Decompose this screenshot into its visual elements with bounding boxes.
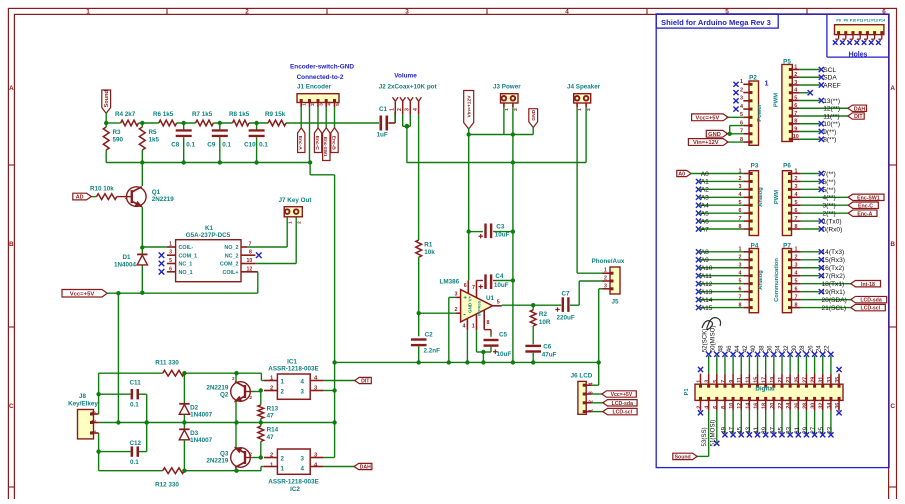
svg-text:Vcc=+5V: Vcc=+5V xyxy=(611,392,633,398)
svg-text:1N4007: 1N4007 xyxy=(190,412,213,419)
svg-text:Phone/Aux: Phone/Aux xyxy=(592,258,625,265)
svg-text:C1: C1 xyxy=(379,106,388,113)
svg-text:1: 1 xyxy=(740,79,743,85)
svg-text:10uF: 10uF xyxy=(495,232,510,239)
svg-text:2N2219: 2N2219 xyxy=(206,384,229,391)
svg-text:5: 5 xyxy=(795,278,798,284)
svg-text:1: 1 xyxy=(281,379,285,386)
svg-text:U1: U1 xyxy=(486,295,495,302)
svg-text:P2: P2 xyxy=(749,74,757,81)
svg-text:15(Rx3): 15(Rx3) xyxy=(822,257,845,264)
svg-text:32: 32 xyxy=(783,345,790,352)
svg-text:10: 10 xyxy=(247,258,253,264)
svg-text:D1: D1 xyxy=(122,254,131,261)
svg-text:3: 3 xyxy=(794,80,797,86)
svg-text:R2: R2 xyxy=(539,311,548,318)
svg-text:Connected-to-2: Connected-to-2 xyxy=(297,74,344,81)
svg-text:3: 3 xyxy=(301,389,305,396)
svg-text:1: 1 xyxy=(795,168,798,174)
svg-text:A5: A5 xyxy=(701,210,709,217)
svg-text:C10: C10 xyxy=(244,142,256,149)
svg-text:2: 2 xyxy=(795,176,798,182)
svg-text:A13: A13 xyxy=(701,289,713,296)
svg-text:6: 6 xyxy=(713,406,719,409)
svg-text:1: 1 xyxy=(281,466,285,473)
svg-text:2N2219: 2N2219 xyxy=(206,458,229,465)
svg-text:1: 1 xyxy=(504,108,510,111)
svg-text:R11 330: R11 330 xyxy=(155,360,179,367)
svg-text:5: 5 xyxy=(335,103,341,106)
svg-text:C11: C11 xyxy=(130,379,142,386)
svg-text:P11: P11 xyxy=(857,18,863,22)
svg-text:9(**): 9(**) xyxy=(823,129,836,136)
svg-text:3: 3 xyxy=(92,411,98,414)
svg-text:17: 17 xyxy=(762,377,768,383)
svg-text:0.1: 0.1 xyxy=(130,402,139,409)
svg-text:3: 3 xyxy=(795,184,798,190)
svg-text:R14: R14 xyxy=(267,427,279,434)
svg-text:PWM: PWM xyxy=(774,190,780,204)
svg-text:1: 1 xyxy=(794,64,797,70)
svg-text:10uF: 10uF xyxy=(497,351,512,358)
svg-text:A3: A3 xyxy=(701,195,709,202)
svg-text:3: 3 xyxy=(301,456,305,463)
svg-text:2: 2 xyxy=(795,255,798,261)
svg-text:15: 15 xyxy=(754,377,760,383)
svg-text:39: 39 xyxy=(761,426,768,433)
svg-text:NC_2: NC_2 xyxy=(225,253,239,259)
svg-text:35: 35 xyxy=(778,426,785,433)
svg-text:29: 29 xyxy=(802,426,809,433)
svg-text:41: 41 xyxy=(753,426,760,433)
svg-text:2: 2 xyxy=(245,9,249,16)
svg-text:46: 46 xyxy=(726,345,733,352)
svg-text:37: 37 xyxy=(769,426,776,433)
svg-text:P10: P10 xyxy=(850,18,856,22)
svg-text:IC2: IC2 xyxy=(290,486,300,493)
svg-text:27: 27 xyxy=(810,426,817,433)
svg-text:12: 12 xyxy=(247,266,253,272)
svg-text:1N4007: 1N4007 xyxy=(190,437,213,444)
svg-text:J7 Key Out: J7 Key Out xyxy=(279,197,313,204)
svg-text:2: 2 xyxy=(281,456,285,463)
svg-text:D3: D3 xyxy=(190,430,199,437)
svg-text:P12: P12 xyxy=(864,18,870,22)
svg-text:12(**): 12(**) xyxy=(823,106,840,113)
svg-text:45: 45 xyxy=(737,426,744,433)
svg-text:4: 4 xyxy=(301,379,305,386)
svg-text:19: 19 xyxy=(770,377,776,383)
svg-text:Q3: Q3 xyxy=(220,450,229,457)
svg-text:C: C xyxy=(890,403,895,410)
svg-text:3: 3 xyxy=(169,250,172,256)
svg-text:11(**): 11(**) xyxy=(823,113,839,120)
svg-text:33: 33 xyxy=(786,426,793,433)
svg-text:42: 42 xyxy=(742,345,749,352)
svg-text:38: 38 xyxy=(758,345,765,352)
svg-text:DAH: DAH xyxy=(360,465,371,471)
svg-text:C2: C2 xyxy=(425,331,434,338)
svg-text:BYPASS: BYPASS xyxy=(478,300,482,316)
svg-text:20: 20 xyxy=(770,403,776,409)
svg-text:R13: R13 xyxy=(267,405,279,412)
svg-text:8(**): 8(**) xyxy=(823,137,836,144)
svg-text:Enc-B: Enc-B xyxy=(330,136,336,151)
svg-text:K1: K1 xyxy=(205,225,214,232)
svg-text:1: 1 xyxy=(765,79,769,88)
svg-text:IC1: IC1 xyxy=(287,358,297,365)
svg-text:0.1: 0.1 xyxy=(222,142,231,149)
svg-text:2: 2 xyxy=(270,386,273,392)
svg-text:ASSR-1218-003E: ASSR-1218-003E xyxy=(268,479,318,486)
svg-text:29: 29 xyxy=(811,377,817,383)
svg-text:J1 Encoder: J1 Encoder xyxy=(297,84,331,91)
svg-text:2: 2 xyxy=(270,453,273,459)
svg-text:1: 1 xyxy=(288,221,294,224)
svg-text:Enc-A: Enc-A xyxy=(857,211,872,217)
svg-text:Q1: Q1 xyxy=(152,189,161,196)
svg-text:4: 4 xyxy=(327,103,333,106)
svg-text:2.2nF: 2.2nF xyxy=(424,348,441,355)
svg-text:R12 330: R12 330 xyxy=(155,482,179,489)
svg-text:43: 43 xyxy=(745,426,752,433)
svg-text:LCD-sda: LCD-sda xyxy=(612,401,633,407)
svg-text:2: 2 xyxy=(250,452,253,457)
svg-text:DIT: DIT xyxy=(361,379,370,385)
svg-text:AREF: AREF xyxy=(823,82,841,89)
svg-text:30: 30 xyxy=(811,403,817,409)
svg-text:9: 9 xyxy=(794,126,797,132)
svg-text:3: 3 xyxy=(740,96,743,102)
svg-text:2: 2 xyxy=(281,389,285,396)
svg-text:2: 2 xyxy=(740,87,743,93)
svg-text:Power: Power xyxy=(757,104,763,122)
svg-text:R3: R3 xyxy=(113,129,122,136)
svg-text:1k5: 1k5 xyxy=(149,137,160,144)
svg-text:2: 2 xyxy=(250,395,253,400)
svg-text:A6: A6 xyxy=(701,218,709,225)
svg-text:21(SCL): 21(SCL) xyxy=(822,305,847,312)
svg-text:2: 2 xyxy=(794,72,797,78)
svg-text:1: 1 xyxy=(795,247,798,253)
svg-text:3: 3 xyxy=(318,103,324,106)
svg-text:6: 6 xyxy=(794,103,797,109)
svg-text:10(**): 10(**) xyxy=(823,121,840,128)
svg-text:B: B xyxy=(890,241,895,248)
svg-text:SDA: SDA xyxy=(823,75,837,82)
svg-text:C12: C12 xyxy=(130,440,142,447)
svg-text:4: 4 xyxy=(740,104,743,110)
svg-text:40: 40 xyxy=(750,345,757,352)
svg-text:33: 33 xyxy=(827,377,833,383)
svg-text:47: 47 xyxy=(267,434,275,441)
svg-text:1: 1 xyxy=(390,108,396,111)
svg-text:1: 1 xyxy=(86,9,90,16)
svg-text:28: 28 xyxy=(799,345,806,352)
svg-text:52(SCK): 52(SCK) xyxy=(701,329,708,353)
svg-text:1: 1 xyxy=(697,380,703,383)
svg-text:53(SS): 53(SS) xyxy=(701,427,708,446)
svg-text:4(**): 4(**) xyxy=(823,195,836,202)
svg-text:GND: GND xyxy=(708,132,721,138)
svg-text:24: 24 xyxy=(786,403,792,409)
svg-text:Vcc=+5V: Vcc=+5V xyxy=(696,115,720,121)
svg-text:P3: P3 xyxy=(751,162,759,169)
svg-text:10: 10 xyxy=(729,403,735,409)
svg-text:7: 7 xyxy=(795,294,798,300)
svg-text:2N2219: 2N2219 xyxy=(152,196,175,203)
svg-text:8: 8 xyxy=(487,320,490,326)
svg-text:Key/Elkey: Key/Elkey xyxy=(68,400,98,407)
svg-text:7: 7 xyxy=(794,111,797,117)
svg-text:C7: C7 xyxy=(562,291,571,298)
svg-text:24: 24 xyxy=(815,345,822,352)
svg-text:23: 23 xyxy=(826,426,833,433)
svg-text:LCD-scl: LCD-scl xyxy=(861,306,881,312)
svg-text:C4: C4 xyxy=(495,273,504,280)
svg-text:4: 4 xyxy=(301,466,305,473)
svg-text:Enc-SW1: Enc-SW1 xyxy=(857,195,880,201)
svg-text:19(Rx1): 19(Rx1) xyxy=(822,289,845,296)
svg-text:C5: C5 xyxy=(499,332,508,339)
svg-text:3: 3 xyxy=(604,283,607,289)
svg-text:C8: C8 xyxy=(171,142,180,149)
svg-text:3(**): 3(**) xyxy=(823,203,836,210)
svg-text:9: 9 xyxy=(729,380,735,383)
svg-text:8: 8 xyxy=(795,224,798,230)
svg-text:5: 5 xyxy=(497,299,500,305)
svg-text:R9 15k: R9 15k xyxy=(265,111,286,118)
svg-text:A15: A15 xyxy=(701,305,713,312)
svg-text:8: 8 xyxy=(249,250,252,256)
svg-text:28: 28 xyxy=(802,403,808,409)
svg-text:3: 3 xyxy=(795,263,798,269)
svg-text:P6: P6 xyxy=(783,162,791,169)
svg-text:1(Tx0): 1(Tx0) xyxy=(823,218,842,225)
svg-text:3: 3 xyxy=(405,108,411,111)
svg-text:A14: A14 xyxy=(701,297,713,304)
svg-text:4: 4 xyxy=(565,9,569,16)
svg-text:Vin=+12V: Vin=+12V xyxy=(467,95,473,118)
svg-text:35: 35 xyxy=(835,377,841,383)
svg-text:NO_1: NO_1 xyxy=(179,270,193,276)
svg-text:1: 1 xyxy=(92,430,98,433)
svg-text:P14: P14 xyxy=(879,18,885,22)
svg-text:A0: A0 xyxy=(678,172,685,178)
svg-text:5: 5 xyxy=(795,200,798,206)
svg-text:8: 8 xyxy=(721,406,727,409)
svg-text:16(Tx2): 16(Tx2) xyxy=(822,265,845,272)
svg-text:26: 26 xyxy=(794,403,800,409)
svg-text:Vcc=+5V: Vcc=+5V xyxy=(70,291,95,297)
svg-text:Sound: Sound xyxy=(675,455,691,461)
svg-text:5: 5 xyxy=(169,258,172,264)
svg-text:NO_2: NO_2 xyxy=(224,245,238,251)
svg-text:10uF: 10uF xyxy=(494,282,509,289)
svg-text:25: 25 xyxy=(818,426,825,433)
svg-text:A12: A12 xyxy=(701,281,713,288)
svg-text:GND V+: GND V+ xyxy=(468,295,473,313)
svg-text:44: 44 xyxy=(734,345,741,352)
svg-text:2: 2 xyxy=(310,103,316,106)
svg-text:A1: A1 xyxy=(701,179,709,186)
svg-text:1: 1 xyxy=(302,103,308,106)
svg-text:10R: 10R xyxy=(539,319,551,326)
svg-text:6: 6 xyxy=(169,266,172,272)
svg-text:2: 2 xyxy=(604,276,607,282)
svg-text:2: 2 xyxy=(125,195,128,200)
svg-text:50(MISO): 50(MISO) xyxy=(710,325,717,352)
svg-text:47uF: 47uF xyxy=(542,352,557,359)
svg-text:Int-18: Int-18 xyxy=(861,282,875,288)
svg-text:Enc-C: Enc-C xyxy=(314,136,320,151)
svg-text:18: 18 xyxy=(762,403,768,409)
svg-text:R1: R1 xyxy=(424,242,433,249)
svg-text:14: 14 xyxy=(745,403,751,409)
svg-text:Shield for Arduino Mega Rev 3: Shield for Arduino Mega Rev 3 xyxy=(661,18,771,27)
svg-text:0.1: 0.1 xyxy=(130,459,139,466)
svg-text:4: 4 xyxy=(795,271,798,277)
svg-text:0(Rx0): 0(Rx0) xyxy=(823,226,843,233)
svg-text:2: 2 xyxy=(397,108,403,111)
svg-text:J2 2xCoax+10K pot: J2 2xCoax+10K pot xyxy=(379,84,438,91)
svg-text:COM_1: COM_1 xyxy=(179,253,198,259)
svg-text:25: 25 xyxy=(794,377,800,383)
svg-text:11: 11 xyxy=(737,377,743,383)
svg-text:Sound: Sound xyxy=(104,89,110,107)
svg-text:36: 36 xyxy=(767,345,774,352)
svg-text:R8 1k5: R8 1k5 xyxy=(229,111,250,118)
svg-text:1: 1 xyxy=(604,268,607,274)
svg-text:6: 6 xyxy=(795,208,798,214)
svg-text:A4: A4 xyxy=(701,203,709,210)
svg-text:LCD-scl: LCD-scl xyxy=(612,410,632,416)
svg-text:22: 22 xyxy=(824,345,831,352)
svg-text:18(Tx1): 18(Tx1) xyxy=(822,281,845,288)
svg-text:Analog: Analog xyxy=(758,187,764,207)
svg-text:R4 2k7: R4 2k7 xyxy=(115,111,136,118)
svg-text:0.1: 0.1 xyxy=(186,142,195,149)
svg-text:13(**): 13(**) xyxy=(823,98,840,105)
svg-text:12: 12 xyxy=(737,403,743,409)
svg-text:Analog: Analog xyxy=(758,270,764,290)
svg-text:47: 47 xyxy=(729,426,736,433)
svg-text:J3 Power: J3 Power xyxy=(493,84,521,91)
svg-text:A7: A7 xyxy=(701,226,709,233)
svg-text:D2: D2 xyxy=(190,404,199,411)
svg-text:A0: A0 xyxy=(701,171,709,178)
svg-text:21: 21 xyxy=(778,377,784,383)
svg-text:J8: J8 xyxy=(79,393,87,400)
svg-text:AD: AD xyxy=(76,195,84,201)
svg-text:R7 1k5: R7 1k5 xyxy=(192,111,213,118)
svg-text:COM_2: COM_2 xyxy=(220,262,239,268)
svg-text:23: 23 xyxy=(786,377,792,383)
svg-text:2: 2 xyxy=(232,376,235,381)
svg-text:30: 30 xyxy=(791,345,798,352)
svg-text:5: 5 xyxy=(713,380,719,383)
svg-text:32: 32 xyxy=(819,403,825,409)
svg-text:Encoder-switch-GND: Encoder-switch-GND xyxy=(290,63,354,70)
svg-text:J5: J5 xyxy=(611,299,619,306)
svg-text:Digital: Digital xyxy=(755,386,774,393)
svg-text:A11: A11 xyxy=(701,273,713,280)
svg-text:10: 10 xyxy=(793,134,799,140)
svg-text:7: 7 xyxy=(795,216,798,222)
svg-text:C9: C9 xyxy=(207,142,216,149)
svg-text:22: 22 xyxy=(778,403,784,409)
svg-text:A8: A8 xyxy=(701,249,709,256)
svg-text:Enc-SW1: Enc-SW1 xyxy=(323,137,328,157)
svg-text:220uF: 220uF xyxy=(557,314,575,321)
svg-text:0.1: 0.1 xyxy=(259,142,268,149)
svg-text:PWM: PWM xyxy=(774,93,780,107)
svg-text:2: 2 xyxy=(92,420,98,423)
svg-text:2: 2 xyxy=(297,221,303,224)
svg-text:5(**): 5(**) xyxy=(823,187,836,194)
svg-text:1: 1 xyxy=(577,108,583,111)
svg-text:2(**): 2(**) xyxy=(823,211,836,218)
svg-text:3: 3 xyxy=(705,380,711,383)
svg-text:2: 2 xyxy=(513,108,519,111)
svg-text:A10: A10 xyxy=(701,265,713,272)
svg-text:7: 7 xyxy=(721,380,727,383)
svg-text:Q2: Q2 xyxy=(220,392,229,399)
svg-text:31: 31 xyxy=(819,377,825,383)
svg-text:4: 4 xyxy=(795,192,798,198)
svg-text:P1: P1 xyxy=(684,388,690,396)
svg-text:LM386: LM386 xyxy=(440,279,460,286)
svg-text:Holes: Holes xyxy=(849,51,868,58)
svg-text:13: 13 xyxy=(745,377,751,383)
svg-text:3: 3 xyxy=(455,291,458,297)
svg-text:LCD-sda: LCD-sda xyxy=(860,298,881,304)
svg-text:DIT: DIT xyxy=(854,114,863,120)
svg-text:5: 5 xyxy=(794,95,797,101)
svg-text:49: 49 xyxy=(720,426,727,433)
svg-text:6: 6 xyxy=(464,283,467,289)
svg-text:48: 48 xyxy=(718,345,725,352)
svg-text:J6 LCD: J6 LCD xyxy=(571,373,593,380)
svg-text:A: A xyxy=(9,85,14,92)
svg-text:4: 4 xyxy=(463,324,466,330)
svg-text:36: 36 xyxy=(835,403,841,409)
svg-text:COIL-: COIL- xyxy=(179,245,194,251)
svg-text:P13: P13 xyxy=(871,18,877,22)
svg-text:6(**): 6(**) xyxy=(823,179,836,186)
svg-text:14(Tx3): 14(Tx3) xyxy=(822,249,845,256)
svg-text:Enc-C: Enc-C xyxy=(858,203,873,209)
svg-text:R5: R5 xyxy=(149,129,158,136)
svg-text:590: 590 xyxy=(113,137,124,144)
svg-text:1: 1 xyxy=(169,242,172,248)
svg-text:17(Rx2): 17(Rx2) xyxy=(822,273,845,280)
svg-text:26: 26 xyxy=(807,345,814,352)
svg-text:34: 34 xyxy=(775,345,782,352)
svg-text:7: 7 xyxy=(472,285,475,291)
svg-text:A2: A2 xyxy=(701,187,709,194)
svg-text:P8: P8 xyxy=(836,18,840,22)
svg-text:SCL: SCL xyxy=(823,67,836,74)
svg-text:Volume: Volume xyxy=(394,73,417,80)
svg-text:2: 2 xyxy=(697,406,703,409)
svg-text:6: 6 xyxy=(795,286,798,292)
svg-text:DAH: DAH xyxy=(854,106,865,112)
svg-text:20(SDA): 20(SDA) xyxy=(822,297,847,304)
svg-text:NC_1: NC_1 xyxy=(179,262,193,268)
svg-text:1N4004: 1N4004 xyxy=(114,262,137,269)
svg-text:27: 27 xyxy=(802,377,808,383)
